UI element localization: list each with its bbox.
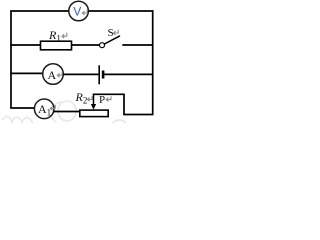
ammeter A1 — [34, 99, 54, 119]
wire: bottom segment — [123, 114, 153, 116]
wire: row2 right — [122, 44, 152, 46]
svg-text:S: S — [108, 27, 114, 39]
svg-text:R1: R1 — [48, 28, 61, 44]
wire: right bus — [152, 10, 154, 114]
svg-text:P: P — [99, 94, 105, 106]
switch S blade — [104, 36, 120, 44]
battery short plate — [102, 71, 105, 79]
wire: top right segment — [89, 10, 154, 12]
watermark curves (faint) — [2, 101, 126, 123]
rheostat slider stem — [93, 94, 95, 105]
wire: top left segment — [10, 10, 68, 12]
wire: row4 right of A1 — [54, 111, 81, 113]
wire: row2 left — [10, 44, 40, 46]
wire: row3 left — [10, 72, 43, 74]
rheostat slider arrowhead — [91, 104, 96, 110]
return mark after S — [113, 30, 118, 35]
svg-text:A: A — [48, 68, 57, 82]
return mark in ammeter A — [57, 72, 62, 77]
ammeter A — [43, 64, 64, 85]
voltmeter V1 — [69, 1, 89, 21]
return mark in ammeter A1 — [50, 105, 55, 110]
return mark in voltmeter — [82, 10, 87, 15]
return mark after R2 — [87, 96, 92, 101]
resistor R1 — [41, 41, 72, 50]
svg-text:R2: R2 — [75, 90, 88, 106]
wire: down segment — [123, 94, 125, 115]
wire: left bus — [10, 11, 12, 108]
wire: slider horizontal — [93, 93, 124, 95]
wire: row2 middle — [72, 44, 100, 46]
svg-text:V: V — [73, 5, 81, 19]
wire: row3 middle — [63, 73, 98, 75]
wire: row4 left — [10, 107, 34, 109]
return mark after R1 — [62, 33, 67, 38]
switch S pivot — [100, 43, 105, 48]
return mark after P — [106, 96, 111, 101]
battery long plate — [98, 65, 100, 84]
wire: row3 right — [104, 73, 152, 75]
rheostat R2 box — [80, 110, 108, 117]
